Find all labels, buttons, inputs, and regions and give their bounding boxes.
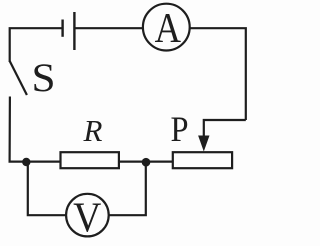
battery positive plate (tall) <box>73 12 75 50</box>
junction node dot left <box>22 158 30 166</box>
wire left junction down to voltmeter <box>28 162 66 215</box>
battery negative plate (short) <box>61 20 63 37</box>
wire resistor to right junction <box>119 161 146 163</box>
resistor body rectangle <box>61 152 119 168</box>
wire switch lower contact down left side to bottom corner <box>10 97 61 162</box>
ammeter circle <box>143 4 190 51</box>
wire right junction to potentiometer <box>146 161 173 163</box>
potentiometer wiper arrowhead <box>198 136 209 152</box>
wire top-left: from switch upper contact up and right to battery <box>10 28 62 62</box>
wire voltmeter to right junction <box>109 162 146 215</box>
wire elbow to wiper shaft <box>204 120 246 137</box>
wire battery to ammeter <box>74 27 143 29</box>
svg-text:V: V <box>73 194 101 241</box>
junction node dot right <box>142 158 151 167</box>
switch S blade (open, hinged at top contact) <box>10 61 27 95</box>
svg-text:S: S <box>31 56 55 100</box>
voltmeter circle <box>66 194 109 237</box>
wire ammeter to top-right corner, down right side <box>190 28 246 120</box>
svg-text:P: P <box>170 109 188 149</box>
svg-text:A: A <box>155 5 182 52</box>
svg-text:R: R <box>83 113 103 148</box>
potentiometer body rectangle <box>173 152 232 168</box>
